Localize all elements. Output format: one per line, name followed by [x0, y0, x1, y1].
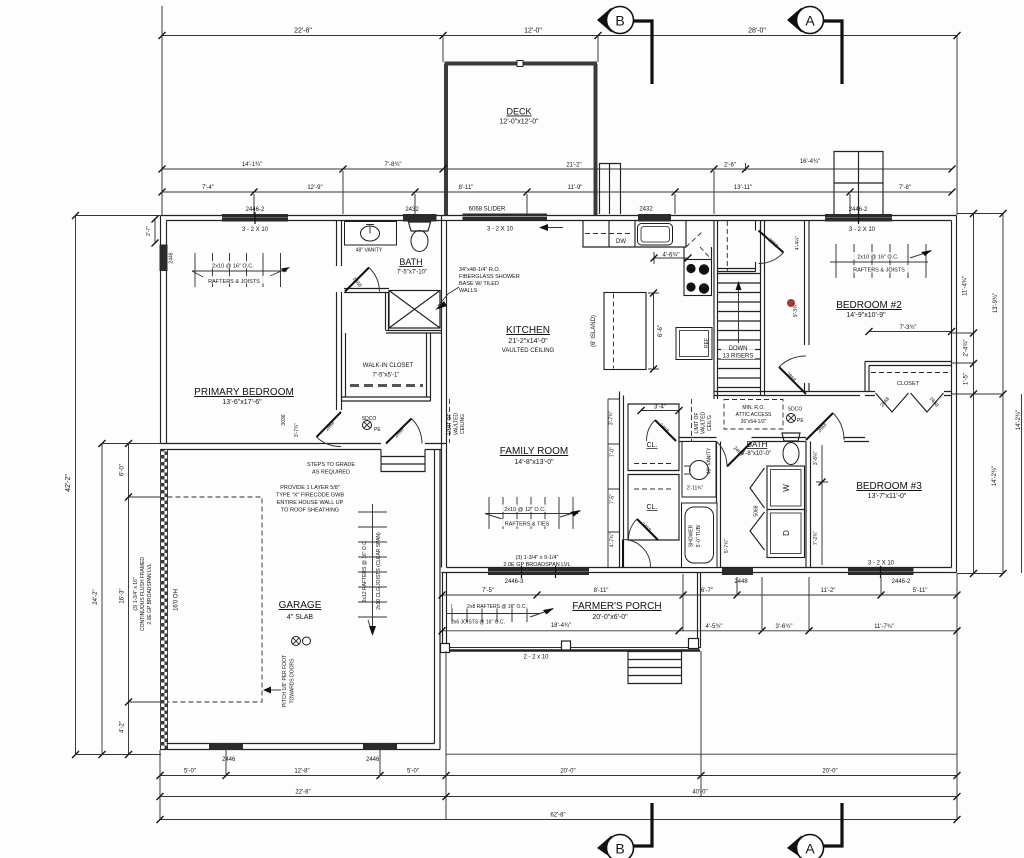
dim right col1 [970, 210, 977, 577]
bath1 toilet [409, 222, 431, 231]
wall walk-in closet bottom [342, 397, 431, 401]
svg-text:7'-0": 7'-0" [610, 447, 616, 457]
kitchen sink [638, 224, 673, 246]
svg-text:62'-8": 62'-8" [550, 813, 565, 819]
wall bedroom2 closet bottom stubs [865, 392, 952, 396]
dim extension horizontals right [951, 214, 1003, 574]
garage door dashed opening [168, 497, 263, 702]
stairs down arrow [738, 288, 740, 345]
svg-text:PROVIDE 1 LAYER 5/8": PROVIDE 1 LAYER 5/8" [280, 485, 340, 491]
svg-text:5'-0": 5'-0" [184, 769, 196, 775]
svg-text:(3) 1-3/4" x 16": (3) 1-3/4" x 16" [133, 577, 139, 611]
svg-text:7'-5"x7'-10": 7'-5"x7'-10" [397, 270, 427, 276]
svg-text:4" SLAB: 4" SLAB [287, 614, 314, 621]
svg-text:2x10 @ 12" O.C.: 2x10 @ 12" O.C. [504, 507, 546, 513]
svg-text:SHOWER: SHOWER [689, 524, 695, 547]
WINDOWS [160, 212, 914, 750]
svg-text:AS REQUIRED: AS REQUIRED [312, 470, 350, 476]
svg-text:2446-3: 2446-3 [505, 579, 524, 585]
wall shower-closet divider [386, 293, 389, 331]
svg-text:B: B [615, 841, 624, 857]
dim line top row2 [159, 166, 956, 173]
svg-text:3 - 2 X 10: 3 - 2 X 10 [487, 227, 514, 233]
svg-text:2446-2: 2446-2 [246, 207, 265, 213]
svg-text:3 - 2 X 10: 3 - 2 X 10 [242, 227, 269, 233]
svg-text:4'-7¾": 4'-7¾" [610, 533, 616, 547]
svg-text:11'-9": 11'-9" [568, 185, 583, 191]
dim bottom row0 [446, 753, 957, 755]
deck gate squares [517, 61, 523, 67]
svg-text:BASE W/ TILED: BASE W/ TILED [459, 281, 499, 287]
svg-text:2446-2: 2446-2 [849, 207, 868, 213]
svg-text:GARAGE: GARAGE [279, 600, 322, 611]
svg-text:21'-2": 21'-2" [566, 163, 581, 169]
closet CL2 shelf dashed [634, 488, 673, 490]
svg-text:7'-2¾": 7'-2¾" [813, 531, 819, 545]
svg-text:2446: 2446 [222, 757, 236, 763]
svg-text:2432: 2432 [639, 207, 653, 213]
dim extension horizontals left [76, 216, 162, 755]
wall vestibule stub lower [756, 262, 761, 272]
bedroom2 closet shelf dashed [871, 372, 949, 374]
svg-text:SDCO: SDCO [362, 416, 377, 422]
svg-text:B: B [615, 13, 624, 29]
wall primary bedroom right [337, 221, 342, 410]
smoke detector hall west [363, 421, 372, 430]
smoke detector hall east [787, 414, 796, 423]
svg-text:5'-7¾": 5'-7¾" [724, 539, 730, 553]
wall walk-in closet left [342, 333, 346, 401]
svg-text:2x8 RAFTERS @ 16" O.C.: 2x8 RAFTERS @ 16" O.C. [467, 604, 527, 610]
shower leader arrow [438, 287, 459, 306]
wall walk-in closet right [427, 333, 431, 401]
svg-text:16'-4¾": 16'-4¾" [800, 159, 820, 165]
dim island height [648, 290, 659, 373]
svg-text:RAFTERS & JOISTS: RAFTERS & JOISTS [208, 279, 260, 285]
wall hall south / bath2 bedroom3 top [679, 438, 869, 442]
door bedroom3 [806, 413, 844, 440]
svg-text:21'-2"x14'-0": 21'-2"x14'-0" [508, 338, 548, 345]
svg-text:PRIMARY BEDROOM: PRIMARY BEDROOM [194, 387, 294, 398]
door closet CL1 [646, 420, 676, 441]
bedroom2 closet bifold doors [876, 393, 944, 412]
svg-text:2446: 2446 [169, 252, 175, 263]
svg-text:A: A [805, 13, 815, 29]
svg-text:2x6 JOISTS @ 16" O.C.: 2x6 JOISTS @ 16" O.C. [451, 620, 505, 626]
rafter symbol family room [485, 497, 581, 529]
svg-text:TO ROOF SHEATHING: TO ROOF SHEATHING [281, 508, 339, 514]
limit of vaulted ceiling dash east [691, 399, 693, 441]
bath2 vanity [682, 442, 716, 498]
svg-text:CLOSET: CLOSET [897, 381, 920, 387]
DOORS [317, 231, 944, 571]
section marker B bottom [597, 803, 652, 858]
svg-text:16'0 OH: 16'0 OH [174, 589, 180, 611]
svg-text:VAULTED: VAULTED [454, 412, 460, 435]
svg-text:BEDROOM #2: BEDROOM #2 [836, 300, 902, 311]
rafter symbol porch [446, 604, 554, 622]
window 2448 bath2 bottom [722, 568, 753, 575]
svg-text:28'-0": 28'-0" [748, 28, 766, 35]
limit of vaulted ceiling dash west [449, 399, 451, 443]
svg-text:PE: PE [374, 427, 381, 433]
dim kitchen counter [651, 252, 692, 264]
arrow pitch doors [268, 689, 281, 691]
dim extension verticals bottom [160, 574, 957, 820]
wall stairwell left [714, 221, 718, 399]
window 2446-2 bedroom3 bottom [848, 568, 914, 575]
svg-text:4'-2": 4'-2" [120, 721, 126, 733]
dim right col3 partial [1021, 394, 1023, 573]
svg-text:TOWARDS DOORS: TOWARDS DOORS [290, 658, 296, 704]
svg-text:14'-9"x10'-9": 14'-9"x10'-9" [846, 312, 886, 319]
svg-text:11'-4¾": 11'-4¾" [963, 276, 969, 296]
label 3-2x10 kitchen + arrow [487, 224, 563, 233]
dim line top row1 [159, 32, 961, 39]
kitchen corner dashed [686, 232, 711, 259]
dim hall vertical east bedroom3 [816, 445, 828, 565]
svg-text:PITCH 1/8" PER FOOT: PITCH 1/8" PER FOOT [282, 655, 288, 707]
svg-text:22'-8": 22'-8" [294, 28, 312, 35]
deck side bump [600, 164, 621, 215]
window 2446-2 primary bedroom top [222, 214, 288, 222]
closet CL1 shelf dashed [634, 463, 673, 465]
wall bedroom2 closet top [865, 362, 952, 366]
window 2446 left wall [160, 245, 168, 272]
svg-text:4'-5¾": 4'-5¾" [706, 624, 723, 630]
svg-text:12'-0": 12'-0" [524, 28, 542, 35]
svg-text:REF: REF [704, 338, 710, 348]
walk-in closet dashed shelf [350, 384, 423, 387]
dim small left wall [152, 216, 159, 247]
svg-text:3'-7¾": 3'-7¾" [609, 411, 615, 425]
svg-text:2.0E GP BROADSPAN LVL: 2.0E GP BROADSPAN LVL [147, 563, 153, 624]
wall vestibule south [718, 269, 756, 272]
svg-text:2.0E GP BROADSPAN LVL: 2.0E GP BROADSPAN LVL [503, 562, 570, 568]
wall house left upper [161, 216, 167, 444]
note porch rafters [451, 602, 542, 626]
svg-text:MIN. R.O.: MIN. R.O. [742, 405, 764, 411]
deck wall right [594, 64, 598, 215]
svg-text:14'-2¾": 14'-2¾" [992, 466, 998, 486]
note rafters family [498, 505, 556, 528]
dim bottom row2 [157, 793, 961, 800]
svg-text:5'-11": 5'-11" [913, 588, 928, 594]
svg-text:DECK: DECK [506, 107, 531, 117]
svg-text:20'-0"x6'-0": 20'-0"x6'-0" [592, 614, 628, 621]
section marker A top [787, 7, 842, 85]
dim porch row2 [439, 627, 961, 634]
svg-text:BEDROOM #3: BEDROOM #3 [856, 481, 922, 492]
svg-text:RAFTERS & JOISTS: RAFTERS & JOISTS [853, 268, 905, 274]
svg-text:2446: 2446 [366, 757, 380, 763]
porch right edge [698, 573, 701, 649]
svg-text:LIMIT OF: LIMIT OF [694, 412, 700, 433]
door bath2 [717, 442, 752, 467]
svg-text:ENTIRE HOUSE WALL UP: ENTIRE HOUSE WALL UP [277, 500, 344, 506]
bath2 tub [682, 503, 718, 568]
stair head dashed line [726, 221, 728, 271]
svg-text:2x10 CLG JOISTS (CLEAR SPAN): 2x10 CLG JOISTS (CLEAR SPAN) [376, 532, 382, 610]
chimney bump top wall [834, 152, 883, 215]
svg-text:6'-0": 6'-0" [120, 464, 126, 476]
svg-text:2'-11¾": 2'-11¾" [687, 486, 704, 492]
svg-text:VAULTED: VAULTED [701, 411, 707, 434]
wall closets CL block [628, 404, 679, 471]
svg-text:2x10 @ 16" O.C.: 2x10 @ 16" O.C. [212, 264, 254, 270]
svg-text:8'-11": 8'-11" [459, 185, 474, 191]
window 2432 bath1 top [403, 214, 437, 222]
svg-text:WALLS: WALLS [459, 288, 478, 294]
wall primary suite bottom / garage top [161, 444, 447, 450]
svg-text:40'-0": 40'-0" [692, 790, 707, 796]
svg-text:5'-0" TUB/: 5'-0" TUB/ [696, 524, 702, 547]
dim bottom row3 [157, 816, 961, 823]
svg-text:WALK-IN CLOSET: WALK-IN CLOSET [363, 363, 414, 369]
porch left edge [443, 573, 447, 649]
door bedroom2 [779, 356, 806, 394]
svg-text:13 RISERS: 13 RISERS [723, 354, 754, 360]
dim right col2 [1000, 210, 1007, 577]
FIXTURES [192, 221, 949, 646]
wall bath2-bedroom3 divider [806, 442, 811, 568]
svg-text:5'-0": 5'-0" [407, 769, 419, 775]
dim bottom row1 [157, 772, 961, 779]
rafter symbol primary bedroom [192, 253, 290, 287]
wall family room east [620, 392, 624, 568]
wall house top outer [161, 215, 957, 217]
deck wall top [445, 62, 598, 66]
door garage entry [386, 419, 422, 444]
svg-text:2'-6": 2'-6" [724, 163, 736, 169]
svg-text:7'-8¾": 7'-8¾" [385, 162, 402, 168]
window 6068 slider kitchen top [463, 214, 548, 221]
svg-text:2448: 2448 [734, 579, 748, 585]
rafter symbol bedroom2 [830, 244, 932, 278]
laundry bifold doors [750, 468, 765, 550]
wall vestibule stub upper [756, 221, 761, 231]
dim hall verticals west [608, 399, 619, 567]
svg-text:8'-11": 8'-11" [594, 588, 609, 594]
svg-text:CEILING: CEILING [460, 414, 466, 434]
porch steps [628, 652, 682, 684]
svg-text:CEIL'G: CEIL'G [707, 415, 713, 431]
kitchen counter top run [583, 221, 686, 247]
svg-text:24'-2": 24'-2" [93, 589, 99, 604]
svg-text:13'-11": 13'-11" [734, 185, 752, 191]
svg-text:3036: 3036 [281, 414, 287, 425]
garage ceiling symbol [292, 637, 311, 646]
svg-text:7'-3¾": 7'-3¾" [900, 325, 917, 331]
svg-text:2x10 @ 16" O.C.: 2x10 @ 16" O.C. [857, 255, 899, 261]
svg-text:7'-5": 7'-5" [610, 494, 616, 504]
note rafters primary bedroom [203, 261, 265, 285]
svg-text:12'-8": 12'-8" [294, 769, 309, 775]
kitchen counter dashed shelf [585, 233, 633, 235]
dim left col2 [99, 440, 106, 758]
svg-text:13'-7"x11'-0": 13'-7"x11'-0" [868, 493, 907, 500]
svg-text:RAFTERS & TIES: RAFTERS & TIES [505, 522, 550, 528]
svg-text:14'-2¾": 14'-2¾" [1016, 410, 1022, 430]
svg-text:26"x54-1/2": 26"x54-1/2" [741, 419, 767, 425]
door bath1 [345, 268, 380, 292]
range [684, 260, 712, 296]
wall bath2 inner divider [717, 442, 721, 568]
svg-text:DOWN: DOWN [729, 346, 748, 352]
svg-text:A: A [805, 841, 815, 857]
wall house bottom right section [442, 568, 957, 573]
section marker B top [597, 7, 652, 85]
svg-text:BATH: BATH [747, 440, 768, 449]
svg-text:5068: 5068 [754, 505, 760, 516]
window 2446-3 family room bottom [488, 568, 589, 575]
dim closet hall 3-4 [638, 407, 683, 414]
laundry W/D box [767, 466, 805, 558]
door closet CL2 [628, 519, 658, 540]
wall house right [952, 216, 957, 573]
svg-text:2432: 2432 [405, 207, 419, 213]
wall garage bottom [161, 744, 441, 750]
svg-text:7'-4": 7'-4" [202, 185, 214, 191]
bath1 vanity [345, 222, 397, 246]
svg-text:BATH: BATH [399, 257, 422, 267]
svg-text:9'-8"x10'-0": 9'-8"x10'-0" [741, 451, 771, 457]
dim extension verticals porch [683, 574, 881, 631]
porch deck front edge [444, 647, 700, 649]
svg-text:TYPE "X" FIRECODE GWB: TYPE "X" FIRECODE GWB [276, 493, 344, 499]
svg-text:KITCHEN: KITCHEN [506, 325, 550, 336]
porch post right [689, 639, 699, 649]
svg-text:12'-0"x12'-0": 12'-0"x12'-0" [499, 119, 539, 126]
section marker A bottom [787, 803, 842, 858]
dim extension verticals top [162, 6, 957, 215]
svg-text:4'-4¼": 4'-4¼" [795, 236, 801, 250]
svg-text:(6' ISLAND): (6' ISLAND) [591, 315, 597, 347]
window 2446 garage bottom right [363, 743, 397, 750]
island [604, 293, 646, 370]
wall bedroom2 closet left [865, 362, 869, 392]
svg-text:6'-6": 6'-6" [658, 325, 664, 337]
svg-text:16'-3": 16'-3" [120, 588, 126, 603]
rafter symbol garage vertical [358, 504, 387, 636]
stairs treads [718, 274, 761, 388]
WALLS [161, 61, 957, 750]
svg-text:CL.: CL. [647, 504, 658, 511]
door primary bedroom [317, 412, 342, 447]
red marker dot [787, 299, 795, 307]
svg-text:11'-7¾": 11'-7¾" [874, 624, 894, 630]
dim bedroom2 closet width [866, 328, 956, 335]
wall garage right [435, 450, 441, 750]
window 2432 kitchen top [638, 214, 671, 222]
wall CL2 block [628, 475, 679, 541]
garage entry steps [381, 450, 425, 472]
shower with X [389, 291, 440, 329]
window 2446 garage bottom left [209, 743, 243, 750]
svg-text:W: W [782, 484, 791, 492]
svg-text:42'-2": 42'-2" [65, 474, 72, 492]
svg-text:CONTINUOUS FLUSH FRAMED: CONTINUOUS FLUSH FRAMED [140, 557, 146, 631]
svg-text:2'-7": 2'-7" [146, 226, 152, 236]
svg-text:3'-6¾": 3'-6¾" [776, 624, 793, 630]
svg-text:48" VANITY: 48" VANITY [707, 447, 713, 474]
wall bedroom2 left [805, 221, 810, 392]
label down 13 risers [721, 343, 755, 360]
svg-text:ATTIC ACCESS: ATTIC ACCESS [736, 412, 772, 418]
note rafters bedroom2 [848, 252, 910, 274]
refrigerator [676, 328, 712, 360]
svg-text:13'-6"x17'-6": 13'-6"x17'-6" [222, 399, 262, 406]
svg-text:20'-0": 20'-0" [560, 769, 575, 775]
svg-text:PE: PE [797, 418, 804, 424]
svg-text:11'-2": 11'-2" [821, 588, 836, 594]
svg-text:STEPS TO GRADE: STEPS TO GRADE [307, 462, 355, 468]
dim line top row3 [159, 189, 956, 196]
attic access dashed box [724, 400, 783, 430]
dim left col3 [125, 440, 132, 758]
svg-text:FIBERGLASS SHOWER: FIBERGLASS SHOWER [459, 274, 520, 280]
svg-text:6'-7": 6'-7" [701, 588, 713, 594]
deck wall left [444, 64, 448, 215]
svg-text:3'-6¼": 3'-6¼" [813, 451, 819, 465]
MARKERS [597, 7, 842, 858]
svg-text:(3) 1-3/4" x 9-1/4": (3) 1-3/4" x 9-1/4" [515, 555, 558, 561]
svg-text:VAULTED CEILING: VAULTED CEILING [502, 348, 555, 354]
svg-text:12'-9": 12'-9" [307, 185, 322, 191]
svg-text:DW: DW [616, 239, 626, 245]
dim left col1 [72, 212, 79, 758]
wall bath1 south [344, 289, 389, 293]
svg-text:2 - 2 x 10: 2 - 2 x 10 [523, 655, 549, 661]
svg-text:22'-8": 22'-8" [295, 790, 310, 796]
svg-text:SDCO: SDCO [788, 407, 803, 413]
door vestibule [759, 231, 784, 264]
svg-text:14'-8"x13'-0": 14'-8"x13'-0" [514, 459, 554, 466]
svg-text:3'-7¾": 3'-7¾" [294, 423, 300, 437]
svg-text:13'-9¾": 13'-9¾" [993, 293, 999, 313]
porch post mid [562, 641, 571, 650]
svg-text:7'-5": 7'-5" [482, 588, 494, 594]
kitchen counter right return [684, 247, 712, 260]
wall below shower [386, 331, 442, 334]
svg-text:34"x48-1/4" R.O.: 34"x48-1/4" R.O. [459, 267, 501, 273]
door hall to family room [623, 540, 651, 568]
porch post left [441, 644, 450, 653]
svg-text:2x12 RAFTERS @ 16" O.C.: 2x12 RAFTERS @ 16" O.C. [362, 540, 368, 602]
svg-text:3 - 2 X 10: 3 - 2 X 10 [849, 227, 876, 233]
svg-text:LIMIT OF: LIMIT OF [447, 413, 453, 434]
svg-text:7'-5"x5'-1": 7'-5"x5'-1" [373, 373, 400, 379]
svg-text:20'-0": 20'-0" [822, 769, 837, 775]
svg-text:D: D [782, 530, 791, 536]
svg-text:2'-4¾": 2'-4¾" [964, 340, 970, 357]
svg-text:18'-4¾": 18'-4¾" [551, 623, 571, 629]
svg-text:7'-8": 7'-8" [899, 185, 911, 191]
wall house top inner [167, 220, 952, 222]
bath2 toilet [782, 433, 800, 441]
svg-text:FAMILY ROOM: FAMILY ROOM [500, 446, 569, 457]
svg-text:FARMER'S PORCH: FARMER'S PORCH [572, 601, 661, 612]
svg-text:6068 SLIDER: 6068 SLIDER [469, 207, 506, 213]
wall stairwell right [761, 221, 765, 396]
svg-text:2446-2: 2446-2 [892, 579, 911, 585]
svg-text:CL.: CL. [647, 442, 658, 449]
svg-text:1'-5": 1'-5" [964, 373, 970, 385]
svg-text:4'-6¾": 4'-6¾" [663, 253, 680, 259]
door front porch entry [623, 569, 651, 571]
svg-text:3 - 2 X 10: 3 - 2 X 10 [868, 561, 895, 567]
svg-text:14'-1¾": 14'-1¾" [242, 162, 262, 168]
